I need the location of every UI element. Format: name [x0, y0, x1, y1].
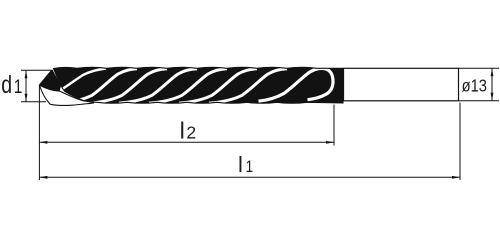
drill fluted body silhouette (black fill)	[54, 67, 344, 103]
top lip edge	[39, 70, 52, 85]
flute white gap curves	[59, 68, 333, 103]
svg-text:l: l	[180, 118, 185, 144]
svg-text:1: 1	[246, 158, 254, 177]
mini arrow up	[491, 68, 494, 76]
shank outline	[344, 68, 459, 101]
l2 right arrow	[326, 141, 334, 144]
body outline stroke	[54, 67, 344, 103]
svg-text:l: l	[238, 152, 243, 177]
svg-text:ø13: ø13	[462, 76, 487, 95]
d1 arrow up	[25, 70, 28, 78]
tip heel relief (white cheek)	[39, 85, 94, 105]
facet edge	[52, 70, 61, 86]
bottom edge under heel	[50, 103, 94, 106]
l1 right arrow	[452, 176, 460, 179]
l2 dimension line	[39, 141, 334, 143]
extension line from tip apex	[38, 85, 40, 180]
right mini dimension line for shank dia	[491, 68, 493, 101]
l1 dimension line	[39, 176, 460, 178]
tip point wedge	[39, 70, 61, 91]
tip outline lines	[39, 70, 94, 106]
mini arrow down	[491, 93, 494, 101]
l2 left arrow	[39, 141, 47, 144]
d1 dimension line	[25, 70, 27, 102]
d1 extension line top	[21, 69, 51, 71]
heel curve	[39, 85, 94, 102]
d1 extension line bottom	[21, 101, 46, 103]
svg-text:d: d	[1, 71, 12, 99]
bottom cone edge	[39, 85, 50, 104]
extension line at flute end	[333, 105, 335, 146]
shank edge lines to right	[459, 68, 500, 101]
l1 left arrow	[39, 176, 47, 179]
svg-text:1: 1	[14, 76, 23, 98]
svg-text:2: 2	[186, 123, 196, 143]
extension line at shank end	[459, 103, 461, 181]
d1 arrow down	[25, 94, 28, 102]
